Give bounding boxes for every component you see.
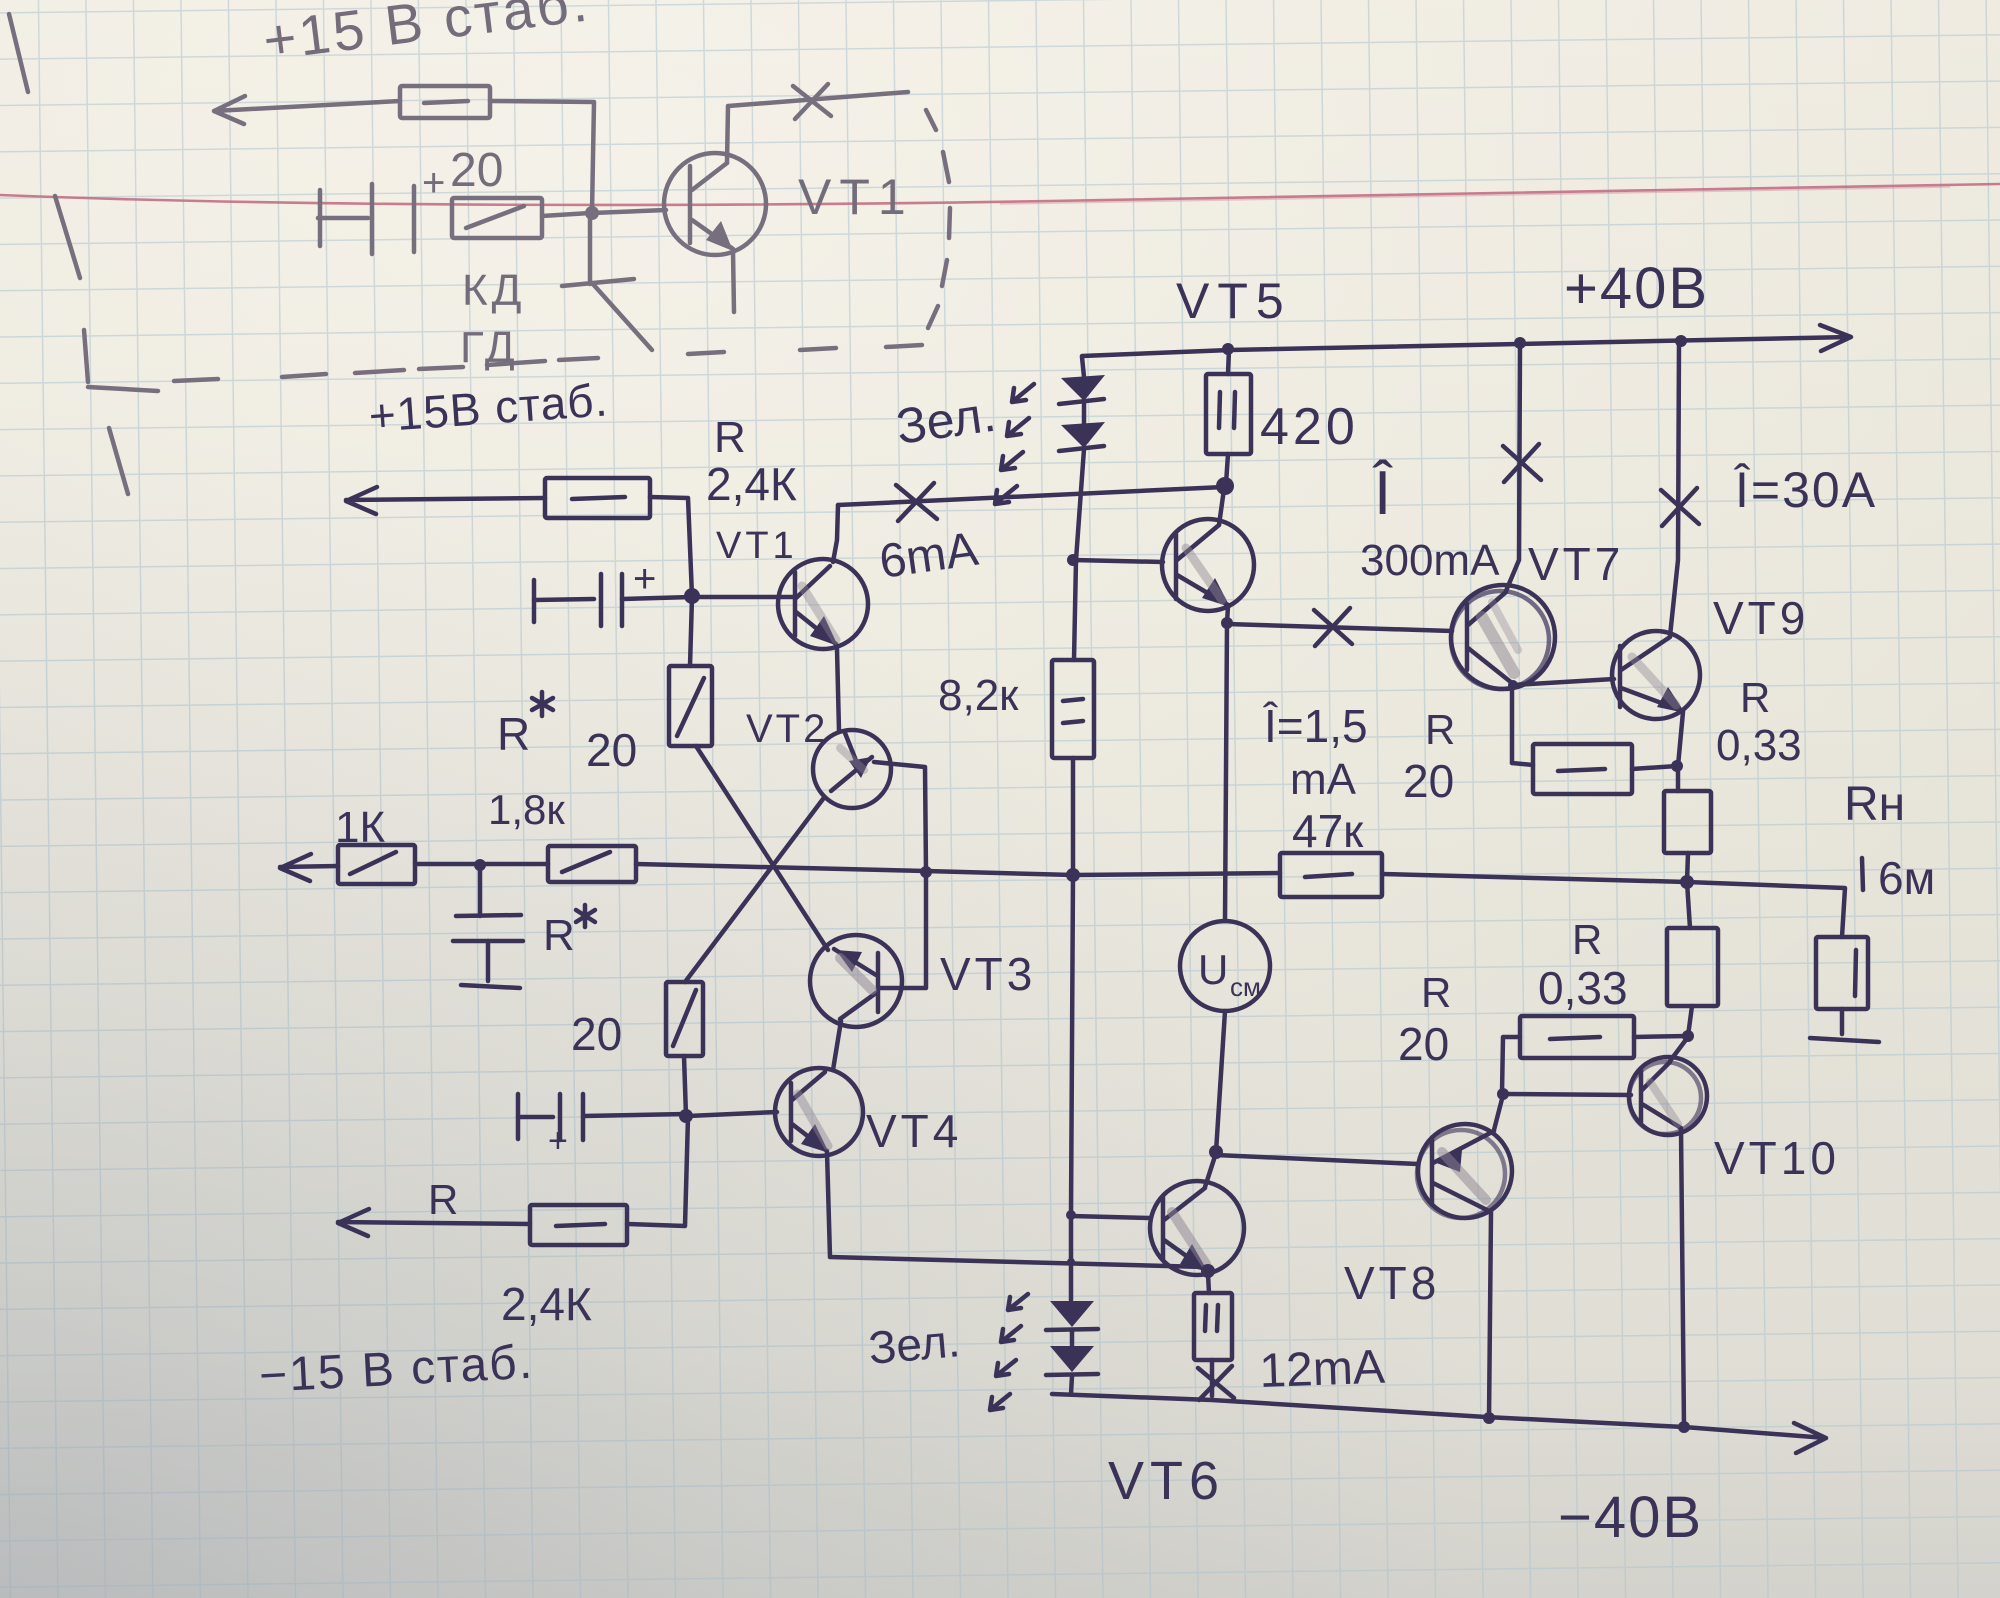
node M junction (VT8 collector / VT10 base) (1497, 1088, 1509, 1100)
svg-text:U: U (1198, 946, 1228, 993)
wire node to VT1 base (592, 210, 666, 213)
transistor VT9 (1612, 342, 1700, 766)
svg-text:R: R (497, 708, 530, 760)
svg-text:6м: 6м (1878, 852, 1935, 904)
transistor VT7 (1451, 344, 1555, 763)
svg-text:Зел.: Зел. (866, 1314, 962, 1374)
wire 47K to output node (1382, 874, 1687, 882)
node J junction (VT7 emitter / VT9 base) (1508, 680, 1518, 690)
wire mid rail (636, 864, 1280, 875)
label I=1,5 mA (1262, 700, 1368, 804)
transistor VT8 (1216, 1095, 1512, 1418)
INK_GROUP (280, 325, 1879, 1453)
wire VT5 base (1073, 560, 1163, 562)
resistor 8,2K chain (1052, 560, 1094, 1300)
svg-text:1,8к: 1,8к (488, 786, 565, 833)
-40V bottom rail with arrow (1052, 1394, 1826, 1453)
wire +15V stab arrow (top pencil circuit) (214, 96, 400, 124)
capacitor C (polarized, top pencil circuit) (318, 161, 445, 254)
transistor VT1 (top pencil circuit) (664, 92, 908, 312)
rail junction VT7 (1514, 337, 1526, 349)
node I junction (VT6 collector / VT8 base) (1209, 1145, 1223, 1159)
X mark (pencil, VT1 collector) (793, 84, 831, 119)
label R 0,33 (upper) (1716, 674, 1802, 770)
stray pencil stroke top-left (9, 14, 28, 92)
svg-text:R: R (1425, 706, 1455, 753)
svg-text:420: 420 (1260, 398, 1359, 456)
svg-text:−40В: −40В (1558, 1485, 1703, 1550)
label 6 Ohm (1862, 852, 1935, 904)
label I 300mA (1360, 459, 1500, 585)
node A junction (684, 588, 700, 604)
wire 1K to 1,8K (415, 862, 548, 867)
resistor 1K (338, 845, 415, 884)
rail junction VT5 (1222, 343, 1234, 355)
resistor 20 (top pencil circuit) (452, 198, 590, 238)
wire VT9 base (1513, 679, 1614, 685)
node N junction (VT6 emitter) (1201, 1264, 1215, 1278)
node junction (top circuit) (585, 206, 599, 220)
svg-text:VT1: VT1 (716, 525, 798, 567)
node L junction (VT10 collector) (1682, 1030, 1694, 1042)
+40V top rail with arrow (1082, 325, 1851, 356)
svg-text:20: 20 (586, 724, 637, 776)
label R 0,33 (lower) (1538, 916, 1628, 1014)
resistor 1,8K (548, 846, 636, 882)
svg-text:1К: 1К (335, 803, 385, 852)
dashed pencil boundary corner (84, 330, 158, 391)
transistor VT2 (813, 730, 926, 872)
svg-text:VT9: VT9 (1713, 592, 1809, 644)
input wire arrow left (280, 854, 338, 881)
svg-text:+40В: +40В (1564, 256, 1709, 321)
resistor 420 (1206, 349, 1251, 484)
resistor R20 (VT9) (1512, 744, 1677, 794)
svg-text:ГД: ГД (460, 323, 519, 372)
wire resistor to corner node (490, 101, 594, 212)
svg-text:VT8: VT8 (1344, 1257, 1440, 1309)
X mark (12mA) (1198, 1366, 1234, 1400)
resistor R0,33 (upper) (1664, 766, 1711, 882)
LED chain (upper, green) (1059, 357, 1105, 560)
resistor R0,33 (lower) (1667, 882, 1718, 1036)
svg-text:+: + (633, 557, 656, 601)
X mark (VT7 collector) (1503, 444, 1541, 482)
X mark 6mA (896, 483, 937, 521)
rail junction VT10 emitter (1678, 1421, 1690, 1433)
svg-text:300mA: 300mA (1360, 536, 1500, 585)
X mark (VT9 collector) (1661, 488, 1699, 526)
node F junction (8,2K mid) (1066, 868, 1080, 882)
resistor 2,4K (lower) with arrow to -15V (338, 1117, 688, 1245)
svg-text:R: R (543, 911, 575, 960)
svg-text:VT5: VT5 (1176, 273, 1292, 329)
label R* (lower) (543, 905, 595, 960)
rail junction VT9 (1675, 335, 1687, 347)
svg-text:47к: 47к (1292, 805, 1364, 857)
resistor 20 (upper, VT2 input) (669, 597, 712, 746)
svg-text:2,4К: 2,4К (706, 458, 797, 510)
svg-text:Rн: Rн (1844, 778, 1905, 831)
transistor VT4 (688, 1068, 1205, 1267)
wire VT1 collector to LED node (838, 487, 1224, 505)
PENCIL_GROUP (9, 14, 950, 494)
label R 20 (VT9) (1403, 706, 1455, 807)
svg-text:R: R (714, 413, 746, 462)
svg-text:R: R (428, 1176, 458, 1223)
LED light arrows (lower) (990, 1294, 1028, 1410)
svg-text:R: R (1421, 969, 1451, 1016)
capacitor C3 (input VT4) (518, 1094, 686, 1160)
Ucm bias source (1180, 623, 1270, 1152)
label R 20 (VT10) (1398, 969, 1451, 1070)
zener diode КД (pencil) (562, 213, 652, 350)
svg-text:20: 20 (571, 1008, 622, 1060)
svg-text:Î=30А: Î=30А (1733, 462, 1877, 518)
resistor R (top, to +15V) (400, 86, 490, 118)
svg-text:Î=1,5: Î=1,5 (1262, 700, 1368, 752)
node C junction (mid wire / VT2-VT3 bases) (920, 866, 932, 878)
svg-text:0,33: 0,33 (1538, 962, 1628, 1014)
capacitor to ground (input) (453, 866, 523, 988)
svg-text:VT4: VT4 (866, 1105, 962, 1157)
stray pencil stroke left lower (109, 428, 128, 494)
svg-text:Î: Î (1372, 459, 1393, 528)
label Ucm (1198, 946, 1261, 1002)
svg-text:8,2к: 8,2к (938, 671, 1019, 720)
svg-text:+: + (548, 1122, 568, 1160)
svg-text:0,33: 0,33 (1716, 721, 1802, 770)
node K junction (VT9 emitter) (1671, 760, 1683, 772)
node B junction (LED/420) (1216, 477, 1234, 495)
svg-text:VT1: VT1 (798, 169, 914, 225)
svg-text:20: 20 (1403, 755, 1454, 807)
wire output to load RH (1687, 882, 1845, 937)
svg-text:R: R (1572, 916, 1602, 963)
transistor VT10 (1503, 1037, 1707, 1427)
resistor R20 (VT10) (1502, 1016, 1688, 1093)
output node junction (1680, 875, 1694, 889)
label R* (upper) (497, 692, 553, 760)
svg-text:20: 20 (1398, 1018, 1449, 1070)
svg-text:см: см (1230, 972, 1261, 1002)
svg-text:20: 20 (450, 144, 503, 197)
wire node A to VT1 base (692, 595, 797, 600)
svg-text:VT6: VT6 (1108, 1451, 1225, 1511)
transistor VT5 (1162, 489, 1254, 623)
svg-text:VT7: VT7 (1528, 538, 1624, 590)
LED chain (lower, green) (1046, 1258, 1098, 1394)
svg-text:mA: mA (1290, 755, 1357, 804)
capacitor C2 (input VT1) (534, 557, 692, 626)
resistor R 2,4K (upper) (545, 478, 650, 518)
transistor VT3 (810, 874, 926, 1070)
X mark (VT7 base wire) (1314, 608, 1352, 646)
svg-text:КД: КД (462, 266, 525, 315)
svg-text:2,4К: 2,4К (501, 1278, 592, 1330)
transistor VT1 (first diff pair) (778, 505, 868, 731)
dashed pencil boundary arc right (926, 110, 950, 328)
svg-text:VT3: VT3 (940, 948, 1036, 1000)
svg-text:12mA: 12mA (1259, 1341, 1386, 1398)
dashed pencil boundary line (174, 345, 922, 381)
wire diagonal VT2 to resistor20 lower (685, 799, 823, 982)
stray pencil stroke left (55, 196, 80, 278)
resistor 47K (1280, 853, 1382, 897)
load resistor RH (1810, 937, 1879, 1042)
node D junction (VT4 base) (679, 1109, 693, 1123)
node H junction (VT5 emitter) (1221, 617, 1233, 629)
resistor 12mA bias (1194, 1274, 1232, 1396)
node G junction (VT5 base) (1067, 554, 1079, 566)
svg-text:+: + (422, 161, 445, 205)
svg-text:R: R (1740, 674, 1770, 721)
wire VT5 emitter to VT7 base (1227, 624, 1452, 631)
node E junction (input RC) (474, 859, 486, 871)
red ruled line (0, 184, 2000, 205)
wire resistor to node A (650, 497, 692, 596)
LED light arrows (upper) (995, 384, 1034, 504)
svg-text:VT2: VT2 (746, 707, 828, 751)
transistor VT6 (1066, 1153, 1244, 1275)
resistor 20 (lower, VT3 input) (666, 982, 703, 1116)
rail junction VT8 emitter (1483, 1412, 1495, 1424)
wire diagonal resistor20 to VT3 (696, 746, 828, 950)
svg-text:VT10: VT10 (1714, 1132, 1840, 1184)
wire +15V stab arrow (second stage) (346, 487, 545, 514)
